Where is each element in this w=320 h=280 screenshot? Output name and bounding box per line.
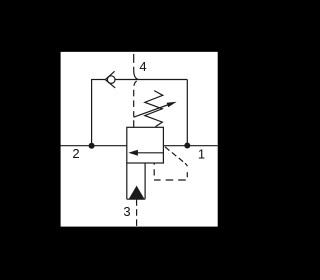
vent line port 4 upper dashed: [133, 54, 135, 71]
vent line hop lower tail: [134, 81, 137, 86]
spring: [145, 91, 163, 127]
drain channel right wall: [144, 163, 146, 199]
wire port 1 line: [163, 145, 217, 147]
pilot line right vertical dashed: [186, 172, 188, 177]
wire top line right segment: [115, 79, 187, 81]
wire left branch vertical: [91, 80, 93, 146]
node junction at port 1 branch: [184, 143, 190, 149]
wire right branch vertical: [186, 80, 188, 144]
drawing canvas background: [61, 52, 218, 227]
pilot line left vertical dashed: [153, 163, 155, 175]
check valve CV1 seat: [105, 71, 115, 88]
svg-text:2: 2: [72, 146, 79, 161]
flow arrow in valve body: [138, 152, 164, 154]
svg-text:1: 1: [198, 147, 205, 162]
flow arrow head: [128, 150, 138, 156]
pilot line bottom horizontal dashed: [154, 179, 186, 181]
vent line port 4 lower dashed: [133, 90, 135, 128]
valve body U1: [127, 127, 164, 163]
check valve CV1 circle: [107, 76, 115, 84]
drain triangle: [129, 186, 145, 200]
adjustment arrow head: [167, 102, 177, 108]
wire port 2 line: [61, 145, 127, 147]
pilot line diagonal dashed: [165, 147, 188, 166]
drain channel left wall: [126, 163, 128, 199]
port 3 line dashed: [136, 199, 138, 226]
wire top line left segment: [91, 79, 105, 81]
adjustment arrow shaft: [134, 105, 168, 117]
node junction at port 2 branch: [89, 143, 95, 149]
vent line hop upper curve: [134, 71, 138, 80]
drain channel base: [127, 198, 145, 200]
svg-text:3: 3: [123, 204, 130, 219]
svg-text:4: 4: [139, 59, 146, 74]
